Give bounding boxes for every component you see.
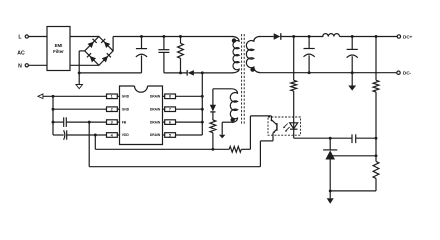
wire divider bottom <box>330 178 376 191</box>
wire pin 5 to drain bus <box>176 134 203 136</box>
pin label DRAIN 7 <box>150 107 161 111</box>
junction FB node <box>88 121 91 124</box>
wire bridge negative rail <box>79 72 141 74</box>
pin label GND <box>122 95 130 99</box>
bridge diode D1 (lower-left to top) <box>88 39 97 48</box>
junction pin1 bus <box>52 95 55 98</box>
node L (AC line input terminal) <box>18 35 28 41</box>
junction pin2 bus <box>52 108 55 111</box>
wire divider middle <box>375 92 377 161</box>
wire bridge right vertex riser to DC bus <box>113 37 233 51</box>
capacitor output C6 (polarized) <box>347 37 358 73</box>
wire LED branch upper <box>293 37 295 81</box>
wire L terminal to EMI filter <box>28 36 47 38</box>
resistor divider upper R5 <box>373 80 379 92</box>
pin label VDD <box>122 133 130 137</box>
wire inductor to DC+ terminal <box>340 36 398 38</box>
transformer bias winding <box>230 89 237 123</box>
wire clamp bottom rail <box>164 72 187 74</box>
capacitor output C5 (polarized) <box>304 37 315 73</box>
pin label FB <box>122 120 127 124</box>
wire pin2 line <box>53 108 107 110</box>
optocoupler LED <box>290 117 298 138</box>
bridge diode D3 (bottom to left) <box>87 53 96 62</box>
node DC- output terminal <box>397 71 412 76</box>
junction drain node <box>201 71 204 74</box>
wire ref line <box>333 155 377 157</box>
resistor divider lower R6 <box>373 161 379 178</box>
wire pin 8 to drain bus <box>176 95 203 97</box>
pin label DRAIN 6 <box>150 120 161 124</box>
svg-text:2: 2 <box>111 108 113 112</box>
bridge diode D4 (bottom to right) <box>102 53 111 62</box>
polarity dot primary <box>232 38 236 42</box>
wire FB horizontal to optocoupler <box>89 166 260 168</box>
junction divider FB-cap node <box>375 137 378 140</box>
wire FB vertical <box>88 122 90 167</box>
junction LED branch rail crossing <box>293 72 295 74</box>
capacitor feedback C3 <box>64 117 67 127</box>
junction shunt bottom <box>329 189 332 192</box>
pin label GND <box>122 107 130 111</box>
arrow left (to primary ground) <box>38 94 43 99</box>
svg-text:DRAIN: DRAIN <box>150 120 161 124</box>
wire VDD rail <box>95 148 229 150</box>
zener shunt regulator U3 <box>323 138 337 191</box>
wire pin4 line right segment <box>67 134 107 136</box>
optocoupler light arrows <box>283 124 290 132</box>
junction divider rail crossing <box>375 72 377 74</box>
junction drain pin 7 <box>201 108 204 111</box>
transformer primary winding <box>233 37 240 73</box>
wire pin1 line with arrow <box>43 95 107 97</box>
wire pin3 line left segment <box>53 121 64 123</box>
wire VDD rail to optocoupler <box>241 116 271 149</box>
pin 7 box (DRAIN) <box>163 107 176 112</box>
wire pin4 line left segment <box>53 134 64 136</box>
wire EMI filter top output to bridge top vertex <box>70 36 99 38</box>
junction output cap1 bottom <box>308 71 311 74</box>
pin 1 box (GND) <box>107 94 120 99</box>
pin 2 box (GND) <box>107 107 120 112</box>
svg-text:GND: GND <box>122 107 130 111</box>
pin label DRAIN 8 <box>150 95 161 99</box>
inductor output filter L1 <box>323 34 340 37</box>
junction bulk cap top <box>140 35 143 38</box>
pin 5 box (DRAIN) <box>163 133 176 138</box>
polarity dot bias winding <box>231 118 235 122</box>
wire LED branch lower <box>293 91 295 117</box>
wire N terminal to EMI filter <box>28 64 47 66</box>
svg-text:L: L <box>18 35 22 41</box>
wire divider upper <box>375 37 377 81</box>
wire bias winding top <box>213 89 232 106</box>
capacitor bulk electrolytic C1 <box>136 37 147 73</box>
svg-text:DC+: DC+ <box>403 35 413 40</box>
pin 6 box (DRAIN) <box>163 120 176 125</box>
ground shunt regulator (filled) <box>327 191 334 204</box>
svg-text:GND: GND <box>122 95 130 99</box>
polarity dot secondary <box>250 67 254 71</box>
svg-text:8: 8 <box>169 95 171 99</box>
wire optocoupler emitter riser <box>260 135 273 167</box>
transformer core <box>242 34 245 124</box>
wire LED cathode line <box>294 137 352 139</box>
svg-text:7: 7 <box>169 108 171 112</box>
junction primary ground node <box>78 71 81 74</box>
wire secondary bottom rail <box>259 72 397 74</box>
capacitor compensation C7 <box>352 134 356 143</box>
resistor clamp R1 <box>178 37 184 73</box>
diode output rectifier D7 <box>274 33 324 40</box>
svg-text:6: 6 <box>169 121 171 125</box>
wire pin 7 to drain bus <box>176 108 203 110</box>
op-amp U1 switcher IC body (8-pin DIP) <box>120 86 163 145</box>
wire comp cap to divider <box>356 137 376 139</box>
wire pin 6 to drain bus <box>176 121 203 123</box>
svg-text:3: 3 <box>111 121 113 125</box>
diode clamp blocking D5 (pointing left) <box>187 70 233 76</box>
wire bridge left vertex to primary ground bus <box>79 51 85 73</box>
svg-text:VDD: VDD <box>122 133 130 137</box>
junction divider top <box>375 35 378 38</box>
junction drain pin 6 <box>201 121 204 124</box>
pin 4 box (VDD) <box>107 133 120 138</box>
svg-text:AC: AC <box>17 51 25 57</box>
pin 8 box (DRAIN) <box>163 94 176 99</box>
wire EMI filter bottom output to bridge bottom vertex <box>70 64 99 66</box>
optocoupler phototransistor <box>271 120 277 136</box>
pin 3 box (FB) <box>107 120 120 125</box>
svg-text:Filter: Filter <box>53 49 64 54</box>
resistor bias R3 <box>210 120 216 133</box>
ground bias (filled arrow) <box>219 135 225 139</box>
wire bias resistor to VDD rail <box>212 133 214 150</box>
svg-text:5: 5 <box>169 133 171 137</box>
junction clamp resistor bottom <box>179 71 182 74</box>
diode bias D6 (pointing down) <box>210 105 216 120</box>
capacitor clamp C2 <box>158 37 169 73</box>
wire secondary to output diode <box>259 36 274 38</box>
wire pin3 line right segment <box>66 121 106 123</box>
junction clamp resistor top <box>179 35 182 38</box>
junction VDD node <box>94 134 97 137</box>
svg-text:EMI: EMI <box>55 43 63 48</box>
EMI filter block <box>47 27 70 71</box>
junction output cap2 bottom / ground <box>351 71 354 74</box>
junction clamp cap top <box>162 35 165 38</box>
svg-text:DC-: DC- <box>403 71 412 76</box>
wire primary ground stem <box>78 73 80 85</box>
wire bias winding bottom to ground <box>222 122 232 135</box>
transformer secondary winding <box>246 37 259 73</box>
ground secondary (filled) <box>348 73 356 91</box>
ground primary (open arrow) <box>76 85 83 89</box>
optocoupler U2 body (dashed) <box>268 117 301 135</box>
junction shunt regulator top <box>329 137 332 140</box>
junction bias chain bottom <box>211 148 214 151</box>
svg-text:FB: FB <box>122 120 127 124</box>
junction output cap2 top <box>351 35 354 38</box>
node DC+ output terminal <box>397 35 412 40</box>
bridge rectifier diamond <box>85 37 113 66</box>
bridge diode D2 (right to top) <box>101 39 110 48</box>
wire ground bus vertical <box>52 96 54 135</box>
junction pin3 bus <box>52 121 55 124</box>
junction output cap1 top <box>308 35 311 38</box>
capacitor bypass C4 (polarized) <box>64 130 67 139</box>
junction drain pin 8 <box>201 95 204 98</box>
pin label DRAIN 5 <box>150 133 161 137</box>
label AC <box>17 51 25 57</box>
wire VDD vertical <box>94 135 96 149</box>
wire drain vertical bus <box>201 73 203 135</box>
node N (AC neutral input terminal) <box>18 63 28 69</box>
svg-text:DRAIN: DRAIN <box>150 133 161 137</box>
resistor bias R2 (horizontal) <box>229 146 241 152</box>
junction divider ref node <box>375 154 378 157</box>
svg-text:DRAIN: DRAIN <box>150 95 161 99</box>
resistor LED series R4 <box>291 80 297 91</box>
svg-text:N: N <box>18 63 22 69</box>
junction LED branch top <box>292 35 295 38</box>
svg-text:DRAIN: DRAIN <box>150 107 161 111</box>
svg-text:1: 1 <box>111 95 113 99</box>
